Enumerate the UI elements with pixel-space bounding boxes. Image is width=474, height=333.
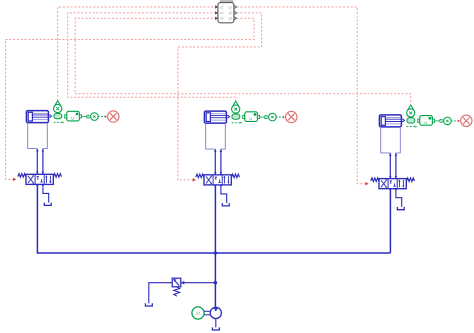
relief branch line	[181, 281, 216, 285]
valve V2 left spring	[196, 174, 204, 178]
signal sink K1	[108, 111, 119, 122]
directional valve V1	[26, 174, 53, 187]
displacement sensor S1	[54, 101, 62, 119]
pipe B J2-V2	[220, 149, 223, 175]
tank T1	[44, 203, 51, 206]
gain circle G3	[444, 117, 452, 125]
link U1-G1	[82, 115, 90, 118]
tank T5	[212, 327, 219, 330]
link U3-G3	[435, 120, 443, 123]
sensor slide link S2	[232, 122, 243, 124]
hydraulic cylinder J2	[204, 111, 230, 123]
valve V1 right spring	[53, 174, 61, 178]
tank T2	[222, 203, 229, 206]
junction relief	[214, 281, 217, 284]
controller block CTRL	[218, 3, 234, 23]
gain circle G2	[269, 113, 277, 121]
valve V1 left spring	[18, 174, 26, 178]
supply line V1 down	[36, 184, 38, 253]
sensor slide link S1	[54, 121, 65, 123]
pilot arrow V1	[13, 178, 16, 182]
tank line V1	[43, 184, 49, 202]
valve V2 right spring	[231, 174, 239, 178]
svg-text:y3: y3	[229, 17, 233, 21]
svg-text:M: M	[196, 311, 200, 316]
svg-text:y1: y1	[229, 5, 233, 9]
signal sink K3	[461, 115, 472, 126]
directional valve V3	[379, 179, 406, 192]
tank line V3	[396, 189, 402, 207]
valve V3 right spring	[406, 178, 414, 182]
tank T4	[145, 303, 152, 306]
supply line V2 to pump	[214, 185, 216, 308]
tank T3	[397, 207, 404, 210]
pipe B J3-V3	[395, 153, 398, 179]
svg-text:x1: x1	[220, 5, 224, 9]
controller output pin 2	[234, 11, 237, 14]
pipe A J1-V1	[36, 149, 39, 175]
pilot arrow V2	[193, 178, 196, 182]
link G1-K1	[98, 115, 107, 118]
wire CTRL y2 to valve V2 pilot	[178, 13, 262, 180]
relief valve spring	[174, 287, 180, 296]
wire sensor S3 to CTRL x3	[75, 18, 411, 106]
cylinder body box J2	[206, 123, 226, 149]
controller output pin 1	[234, 5, 237, 8]
controller input pin 1	[215, 5, 218, 8]
pump P1	[210, 307, 221, 318]
wire CTRL y1 to valve V3 pilot	[237, 7, 366, 184]
controller input pin 2	[215, 11, 218, 14]
wire sensor S1 to CTRL x1	[58, 7, 215, 101]
pipe A J2-V2	[214, 149, 217, 175]
link G3-K3	[451, 120, 460, 123]
hydraulic cylinder J1	[26, 111, 52, 123]
controller output pin 3	[234, 17, 237, 20]
link U2-G2	[260, 116, 268, 119]
pump outlet line	[215, 319, 217, 328]
pilot arrow V3	[365, 182, 368, 186]
electric motor M1	[192, 307, 204, 319]
svg-text:y2: y2	[229, 11, 233, 15]
directional valve V2	[204, 175, 231, 188]
relief valve RV	[172, 278, 181, 287]
pipe A J3-V3	[389, 153, 392, 179]
junction bus-pump	[214, 251, 217, 254]
signal block U1	[65, 111, 82, 121]
displacement sensor S3	[407, 105, 415, 123]
controller input pin 3	[215, 17, 218, 20]
tank line V2	[221, 185, 227, 203]
supply bus	[37, 252, 391, 254]
gain circle G1	[91, 113, 99, 121]
signal block U2	[243, 112, 260, 122]
signal sink K2	[286, 111, 297, 122]
sensor slide link S3	[407, 126, 418, 128]
valve V3 left spring	[371, 178, 379, 182]
wire CTRL y3 to valve V1 pilot	[6, 18, 254, 179]
pipe B J1-V1	[42, 149, 45, 175]
controller block tab	[220, 0, 234, 3]
motor shaft	[204, 311, 210, 315]
link G2-K2	[276, 116, 285, 119]
cylinder body box J1	[28, 123, 48, 149]
displacement sensor S2	[232, 101, 240, 119]
cylinder body box J3	[381, 127, 401, 153]
relief to tank line	[149, 283, 172, 304]
hydraulic cylinder J3	[379, 115, 405, 127]
wire sensor S2 to CTRL x2	[68, 13, 236, 101]
svg-text:x2: x2	[220, 11, 224, 15]
signal block U3	[418, 116, 435, 126]
svg-text:x3: x3	[220, 17, 224, 21]
supply line V3 down	[389, 189, 391, 253]
